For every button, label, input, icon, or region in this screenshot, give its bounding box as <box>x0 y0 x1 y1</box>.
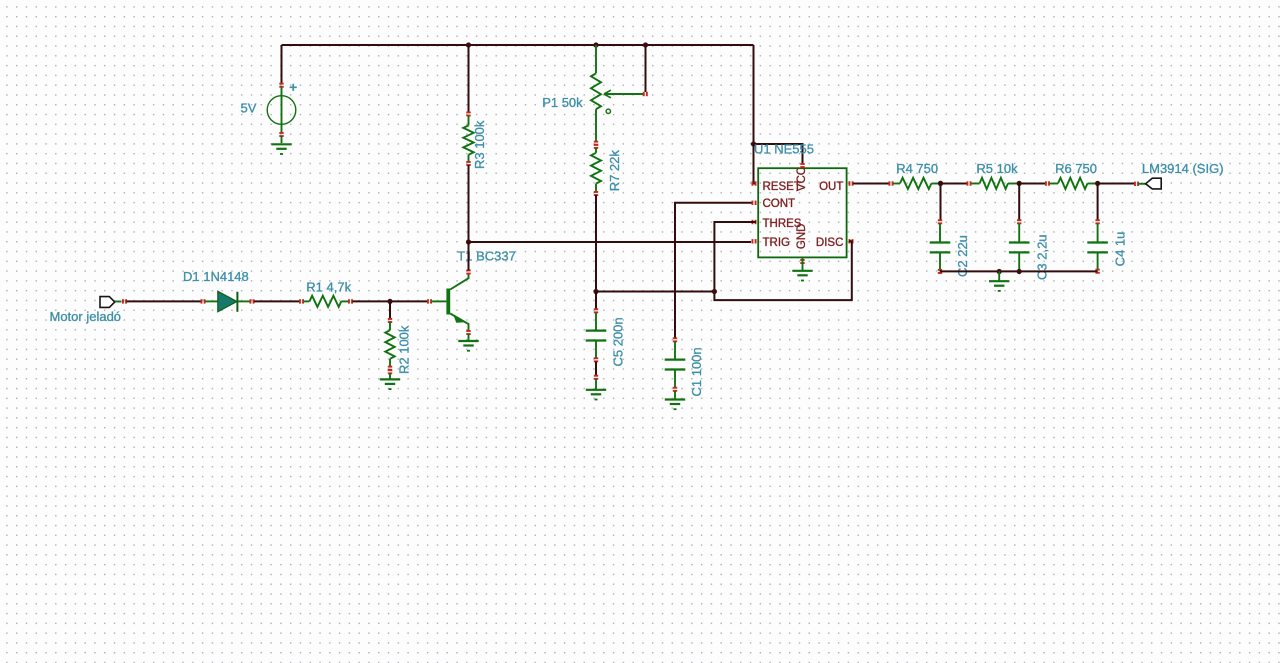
wire VCC branch down <box>753 45 755 144</box>
ground filter rail <box>989 272 1009 292</box>
label 5V <box>241 100 257 115</box>
ground below R2 <box>380 379 400 390</box>
label R1 4,7k <box>306 280 351 295</box>
wire R3 top <box>468 45 470 113</box>
wire 5V source to rail <box>281 45 283 84</box>
label C2 22u <box>955 235 970 277</box>
svg-text:P1 50k: P1 50k <box>542 95 583 110</box>
port LM3914 (SIG) <box>1134 178 1161 189</box>
ground below C5 <box>586 379 606 400</box>
voltage source 5V <box>267 83 297 143</box>
wire R7 to C5 node <box>595 195 597 292</box>
wire THRES-DISC net <box>714 222 851 300</box>
svg-text:CONT: CONT <box>763 198 796 210</box>
wire VCC node to pin <box>754 144 803 164</box>
pin CONT <box>752 198 796 210</box>
resistor R4 <box>889 178 944 189</box>
svg-text:GND: GND <box>796 224 808 250</box>
wire C5 to ground <box>594 362 598 380</box>
pin DISC <box>816 237 854 249</box>
diode D1 <box>201 291 255 312</box>
svg-text:R2 100k: R2 100k <box>396 325 411 374</box>
ground below C1 <box>665 391 685 410</box>
svg-text:VCC: VCC <box>796 167 808 191</box>
label C5 200n <box>611 317 626 366</box>
wire C4 top <box>1097 184 1099 221</box>
label C1 100n <box>689 347 704 396</box>
wire R6 to output port <box>1098 183 1134 185</box>
svg-text:R1 4,7k: R1 4,7k <box>306 280 351 295</box>
wire wiper branch down <box>645 45 647 92</box>
svg-text:R3 100k: R3 100k <box>472 120 487 169</box>
label R5 10k <box>976 161 1018 176</box>
junction R6-C4 node <box>1095 181 1100 186</box>
wire collector <box>468 242 470 271</box>
svg-text:C4 1u: C4 1u <box>1113 232 1128 267</box>
label D1 1N4148 <box>183 269 249 284</box>
label U1 NE555 <box>754 141 814 156</box>
resistor R3 <box>463 112 473 167</box>
junction R3 top rail <box>466 42 471 47</box>
svg-text:C5 200n: C5 200n <box>611 317 626 366</box>
wire RESET pin <box>754 144 757 184</box>
junction C5 node <box>593 289 598 294</box>
svg-text:5V: 5V <box>241 100 257 115</box>
svg-text:R6 750: R6 750 <box>1055 161 1097 176</box>
svg-text:T1 BC337: T1 BC337 <box>457 248 516 263</box>
label R6 750 <box>1055 161 1097 176</box>
junction THRES node <box>712 289 717 294</box>
wire R1 to base node <box>353 300 391 302</box>
wire R4 to R5 <box>941 183 967 185</box>
svg-text:DISC: DISC <box>816 237 843 249</box>
resistor R2 <box>385 318 394 379</box>
pin THRES <box>752 218 802 230</box>
pin TRIG <box>752 237 791 249</box>
label C4 1u <box>1113 232 1128 267</box>
capacitor C3 2,2u <box>1009 219 1030 270</box>
resistor R6 <box>1045 178 1096 189</box>
junction P1 top rail <box>593 42 598 47</box>
svg-text:TRIG: TRIG <box>763 237 791 249</box>
wire R3 bottom to TRIG net <box>468 165 470 242</box>
wire C3 top <box>1018 184 1020 221</box>
pin GND <box>796 224 808 264</box>
wire TRIG net <box>469 241 752 243</box>
capacitor C4 1u <box>1087 219 1108 273</box>
capacitor C2 22u <box>930 219 951 274</box>
wire C2 top <box>940 184 942 221</box>
label C3 2,2u <box>1034 234 1049 280</box>
pin VCC <box>796 163 808 191</box>
wire port to D1 <box>122 299 201 303</box>
junction wiper branch <box>643 42 648 47</box>
resistor R1 <box>299 296 353 307</box>
svg-text:D1 1N4148: D1 1N4148 <box>183 269 249 284</box>
junction R4-C2 node <box>938 181 943 186</box>
capacitor C1 100n <box>665 337 686 392</box>
resistor R7 <box>591 144 601 196</box>
wire +5V top rail <box>282 44 754 46</box>
capacitor C5 200n <box>586 308 607 362</box>
port Motor jelado <box>100 297 122 308</box>
svg-text:C1 100n: C1 100n <box>689 347 704 396</box>
label R3 100k <box>472 120 487 169</box>
label Motor jelado <box>50 309 122 324</box>
junction base node <box>387 299 392 304</box>
svg-text:R5 10k: R5 10k <box>976 161 1018 176</box>
svg-text:RESET: RESET <box>763 181 801 193</box>
wire C5 top <box>595 292 597 310</box>
label P1 50k <box>542 95 583 110</box>
svg-text:Motor jeladó: Motor jeladó <box>50 309 122 324</box>
svg-text:R4 750: R4 750 <box>896 161 938 176</box>
label LM3914 (SIG) <box>1142 161 1224 176</box>
resistor R5 <box>967 178 1018 189</box>
svg-text:U1 NE555: U1 NE555 <box>754 141 814 156</box>
wire D1 to R1 <box>254 300 299 302</box>
wire OUT to R4 <box>853 183 889 185</box>
wire R5 to R6 <box>1019 183 1045 185</box>
transistor T1 BC337 <box>427 270 471 341</box>
svg-text:OUT: OUT <box>819 181 843 193</box>
junction R5-C3 node <box>1017 181 1022 186</box>
wire CONT net <box>675 203 752 338</box>
label R7 22k <box>607 150 622 192</box>
pin RESET <box>752 181 801 193</box>
label R4 750 <box>896 161 938 176</box>
ic U1 NE555 box <box>758 168 846 257</box>
label R2 100k <box>396 325 411 374</box>
svg-text:C3 2,2u: C3 2,2u <box>1034 234 1049 280</box>
junction collector node <box>466 239 471 244</box>
wire C5 node to THRES node <box>596 291 714 293</box>
wire filter ground rail <box>940 270 1098 272</box>
ground below 5V <box>271 144 291 155</box>
svg-text:LM3914 (SIG): LM3914 (SIG) <box>1142 161 1224 176</box>
wire R2 top <box>389 301 391 319</box>
junction C3 bottom <box>1017 269 1022 274</box>
pin OUT <box>819 181 853 193</box>
junction VCC node <box>751 141 756 146</box>
junction ground tap <box>997 269 1002 274</box>
svg-text:R7 22k: R7 22k <box>607 150 622 192</box>
ground below U1 <box>792 258 812 282</box>
wire base to T1 <box>390 300 427 302</box>
potentiometer P1 50k <box>591 45 648 146</box>
ground below T1 <box>458 341 478 352</box>
label T1 BC337 <box>457 248 516 263</box>
